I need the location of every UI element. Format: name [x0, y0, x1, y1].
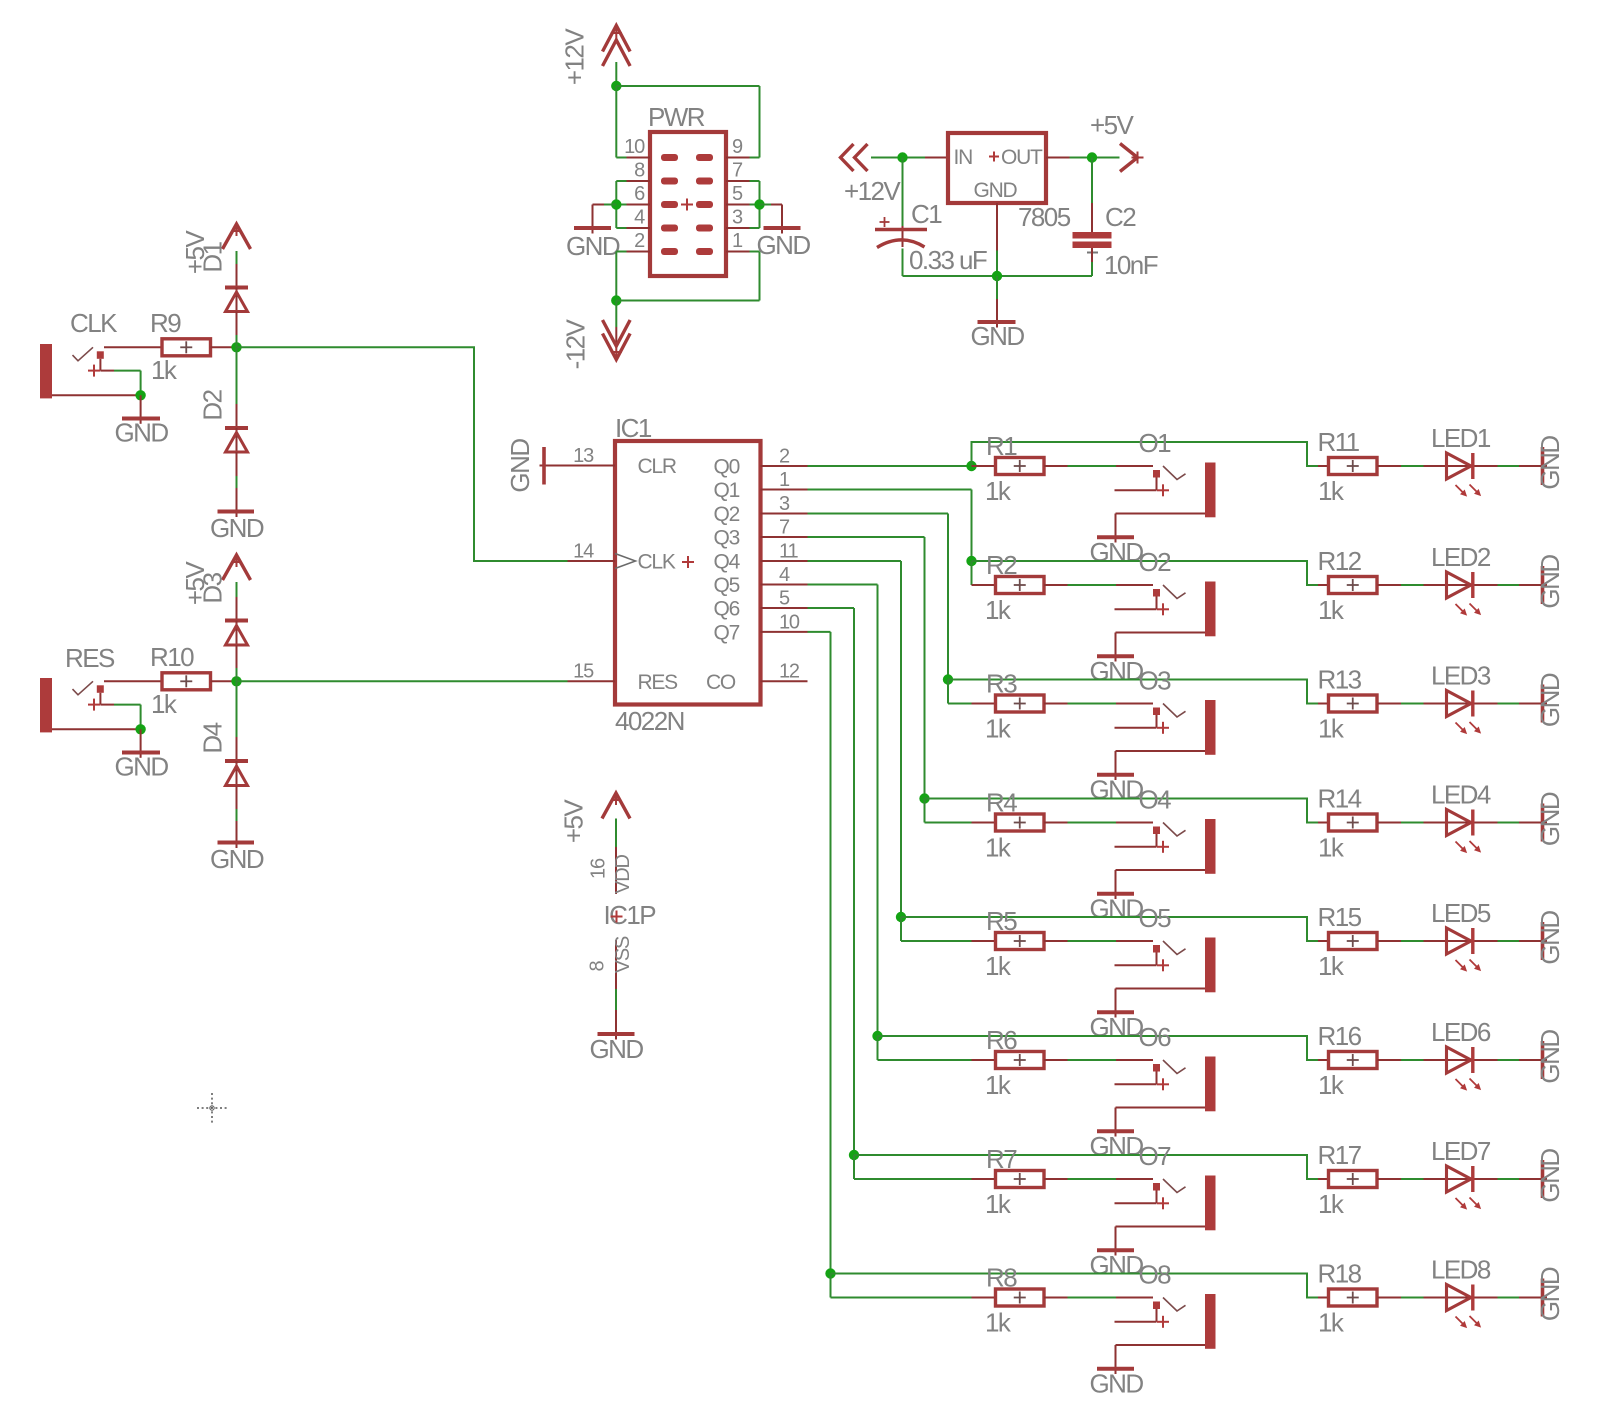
ground (IC1P) — [589, 1034, 643, 1064]
label LED8 — [1431, 1255, 1491, 1285]
svg-text:GND: GND — [1535, 436, 1565, 490]
wire CLK net to IC1 — [237, 347, 568, 561]
svg-text:LED8: LED8 — [1431, 1255, 1491, 1285]
svg-text:R17: R17 — [1318, 1140, 1362, 1170]
wire node to R6 — [972, 1059, 996, 1061]
svg-text:5: 5 — [732, 183, 743, 205]
svg-text:LED2: LED2 — [1431, 542, 1491, 572]
wire +12V down to pin 10 — [616, 86, 626, 158]
wire VSS to ground — [615, 989, 617, 1040]
svg-text:O4: O4 — [1139, 785, 1172, 815]
ground (jack O2) — [1089, 656, 1143, 686]
supply +5V arrow (D1) — [223, 224, 251, 288]
wire LED3 to ground — [1475, 703, 1548, 705]
svg-text:RES: RES — [65, 643, 115, 673]
svg-text:GND: GND — [1089, 894, 1143, 924]
value 1k (R14) — [1318, 833, 1345, 863]
resistor R15 — [1329, 933, 1378, 950]
wire rail down to pin 9 — [759, 86, 761, 158]
svg-text:VDD: VDD — [612, 854, 634, 893]
connector jack O7 — [1115, 1176, 1216, 1231]
diode D4 — [225, 681, 248, 848]
wire C2 to rail — [1091, 248, 1093, 276]
resistor R3 — [996, 695, 1045, 712]
ground (LED4) — [1535, 792, 1565, 846]
wire to right GND — [760, 205, 783, 234]
ground (LED2) — [1535, 555, 1565, 609]
wire jack O4 to ground — [1115, 870, 1117, 899]
svg-text:GND: GND — [1535, 911, 1565, 965]
svg-text:R18: R18 — [1318, 1259, 1362, 1289]
pin CO stub — [761, 680, 808, 682]
wire row 6 drop — [878, 1036, 972, 1060]
svg-text:O8: O8 — [1139, 1260, 1172, 1290]
label R17 — [1318, 1140, 1362, 1170]
svg-text:1k: 1k — [1318, 1189, 1345, 1219]
wire node to R2 — [972, 584, 996, 586]
resistor R8 — [996, 1289, 1045, 1306]
junction RES node — [231, 676, 241, 686]
wire row 8 drop — [831, 1274, 972, 1298]
junction C2 node — [1087, 152, 1097, 162]
svg-text:GND: GND — [1535, 673, 1565, 727]
svg-text:5: 5 — [779, 588, 790, 610]
wire row 6 bypass — [878, 1036, 1329, 1060]
svg-text:GND: GND — [1535, 792, 1565, 846]
label RES — [65, 643, 115, 673]
label R15 — [1318, 902, 1362, 932]
junction jack RES gnd node — [135, 724, 145, 734]
wire R1 to jack O1 — [1044, 465, 1153, 467]
wire to left GND — [593, 205, 617, 234]
wire pin1 right — [750, 251, 760, 253]
wire +12V to junction — [615, 62, 617, 86]
wire node to R4 — [972, 822, 996, 824]
connector jack O6 — [1115, 1057, 1216, 1112]
svg-text:1k: 1k — [1318, 1308, 1345, 1338]
diode D1 — [225, 288, 248, 348]
wire LED4 to ground — [1475, 822, 1548, 824]
resistor R16 — [1329, 1052, 1378, 1069]
junction C1 node — [897, 152, 907, 162]
ground (CLK jack) — [114, 417, 168, 447]
svg-text:1k: 1k — [985, 951, 1012, 981]
IC1 origin cross — [682, 556, 694, 568]
wire R6 to jack O6 — [1044, 1059, 1153, 1061]
svg-text:GND: GND — [1535, 1267, 1565, 1321]
resistor R18 — [1329, 1289, 1378, 1306]
svg-text:GND: GND — [1089, 1369, 1143, 1399]
LED LED5 — [1446, 928, 1481, 972]
value 1k (R18) — [1318, 1308, 1345, 1338]
junction gnd rail node — [992, 271, 1002, 281]
ground (jack O3) — [1089, 775, 1143, 805]
LED LED7 — [1446, 1166, 1481, 1210]
ground (below D4) — [210, 843, 264, 875]
LED LED4 — [1446, 810, 1481, 854]
svg-text:GND: GND — [1089, 537, 1143, 567]
IC U IC1 4022N box — [615, 441, 761, 705]
wire top rail — [616, 85, 759, 87]
junction row 1 node — [966, 461, 976, 471]
svg-text:15: 15 — [573, 661, 594, 683]
wire row 8 bypass — [831, 1274, 1329, 1298]
ground (LED1) — [1535, 436, 1565, 490]
wire R14 to LED4 — [1378, 822, 1447, 824]
junction -12V node — [611, 295, 621, 305]
svg-text:D2: D2 — [198, 389, 228, 420]
svg-text:1k: 1k — [985, 595, 1012, 625]
svg-text:R4: R4 — [986, 788, 1017, 818]
svg-text:LED1: LED1 — [1431, 423, 1491, 453]
svg-text:R14: R14 — [1318, 784, 1362, 814]
ground (LED6) — [1535, 1030, 1565, 1084]
wire jack O8 to ground — [1115, 1345, 1117, 1374]
svg-text:0.33 uF: 0.33 uF — [909, 245, 987, 275]
wire Q1 net to row 2 — [808, 490, 972, 562]
svg-text:LED3: LED3 — [1431, 661, 1491, 691]
wire R18 to LED8 — [1378, 1297, 1447, 1299]
svg-text:O2: O2 — [1139, 547, 1172, 577]
label R12 — [1318, 546, 1362, 576]
junction row 7 node — [849, 1150, 859, 1160]
wire Q0 net to row 1 — [808, 465, 972, 467]
label CLK — [70, 308, 118, 338]
svg-text:16: 16 — [588, 858, 610, 879]
wire RES net to IC1 — [237, 680, 568, 682]
junction pin5 node — [754, 199, 764, 209]
IC power part IC1P — [604, 900, 656, 930]
wire Q6 net to row 7 — [808, 608, 855, 1155]
svg-text:VSS: VSS — [612, 936, 634, 973]
svg-text:8: 8 — [634, 160, 645, 182]
ground (jack O4) — [1089, 894, 1143, 924]
wire Q7 net to row 8 — [808, 632, 831, 1274]
label R7 — [986, 1144, 1017, 1174]
ground (below D2) — [210, 512, 264, 544]
svg-text:+12V: +12V — [560, 28, 590, 85]
wire row 2 bypass — [972, 561, 1329, 585]
wire C1 branch — [902, 158, 904, 248]
wire row 7 bypass — [854, 1155, 1329, 1179]
svg-text:-12V: -12V — [561, 318, 591, 369]
label LED5 — [1431, 898, 1491, 928]
svg-text:IC1: IC1 — [615, 413, 652, 443]
wire row 4 bypass — [925, 799, 1329, 823]
wire R15 to LED5 — [1378, 940, 1447, 942]
wire pin9 right — [750, 157, 760, 159]
ground (right of PWR) — [756, 228, 810, 260]
value 1k (R6) — [985, 1070, 1012, 1100]
svg-text:10: 10 — [624, 136, 645, 158]
wire jack O6 to ground — [1115, 1108, 1117, 1137]
svg-text:GND: GND — [210, 844, 264, 874]
svg-text:R11: R11 — [1318, 427, 1360, 457]
supply +5V arrow (right of 7805) — [1120, 144, 1144, 172]
svg-text:O5: O5 — [1139, 903, 1172, 933]
IC1 output pin stubs — [761, 466, 808, 632]
junction row 2 node — [966, 556, 976, 566]
diode D3 — [225, 621, 248, 682]
wire +12V to 7805 IN — [871, 157, 948, 159]
svg-text:O7: O7 — [1139, 1141, 1172, 1171]
resistor R14 — [1329, 814, 1378, 831]
svg-text:LED6: LED6 — [1431, 1017, 1491, 1047]
svg-text:GND: GND — [1089, 1131, 1143, 1161]
IC1 pin names — [638, 455, 741, 694]
svg-text:R13: R13 — [1318, 665, 1362, 695]
svg-text:GND: GND — [1535, 555, 1565, 609]
supply +12V arrow (top) — [603, 26, 631, 67]
label LED4 — [1431, 780, 1491, 810]
svg-text:GND: GND — [1089, 1250, 1143, 1280]
junction row 8 node — [825, 1268, 835, 1278]
label R10 — [150, 642, 194, 672]
label LED6 — [1431, 1017, 1491, 1047]
connector jack O2 — [1115, 582, 1216, 637]
junction row 4 node — [919, 793, 929, 803]
wire R8 to jack O8 — [1044, 1297, 1153, 1299]
wire row 5 drop — [901, 917, 972, 941]
ground (jack O7) — [1089, 1250, 1143, 1280]
label R5 — [986, 906, 1017, 936]
svg-text:R6: R6 — [986, 1025, 1017, 1055]
value 1k (R1) — [985, 476, 1012, 506]
IC1 clock wedge — [615, 554, 636, 569]
svg-text:1k: 1k — [1318, 595, 1345, 625]
wire jack O2 to ground — [1115, 633, 1117, 662]
wire to GND symbol — [996, 276, 998, 328]
wire row 2 drop — [971, 561, 973, 585]
svg-text:4: 4 — [634, 207, 645, 229]
wire row 5 bypass — [901, 917, 1329, 941]
wire row 3 drop — [948, 680, 972, 704]
svg-text:10nF: 10nF — [1104, 250, 1158, 280]
value 1k (R5) — [985, 951, 1012, 981]
label O6 — [1139, 1022, 1172, 1052]
connector jack CLK — [40, 344, 162, 398]
diode D2 — [225, 347, 248, 517]
wire Q5 net to row 6 — [808, 585, 878, 1037]
ground (RES jack) — [114, 751, 168, 781]
svg-text:CLR: CLR — [638, 455, 677, 478]
svg-text:+5V: +5V — [1090, 110, 1135, 140]
svg-text:R7: R7 — [986, 1144, 1017, 1174]
connector jack O5 — [1115, 938, 1216, 993]
wire R16 to LED6 — [1378, 1059, 1447, 1061]
origin crosshair — [197, 1093, 227, 1123]
wire node to R1 — [972, 465, 996, 467]
svg-text:2: 2 — [779, 446, 790, 468]
svg-text:Q0: Q0 — [714, 456, 740, 479]
connector jack O1 — [1115, 463, 1216, 518]
label LED7 — [1431, 1136, 1491, 1166]
wire row 4 drop — [925, 799, 972, 823]
svg-text:8: 8 — [587, 960, 609, 971]
svg-text:14: 14 — [573, 541, 594, 563]
wire CLR pin — [540, 465, 616, 467]
svg-text:11: 11 — [779, 541, 798, 563]
wire LED2 to ground — [1475, 584, 1548, 586]
value 1k (R2) — [985, 595, 1012, 625]
supply -12V arrow (bottom) — [603, 301, 631, 360]
wire jack O7 to ground — [1115, 1227, 1117, 1256]
wire pin2 to -12V — [616, 252, 626, 301]
junction row 3 node — [943, 674, 953, 684]
wire row 7 drop — [854, 1155, 972, 1179]
value 4022N — [615, 706, 684, 736]
svg-text:GND: GND — [970, 321, 1024, 351]
resistor R13 — [1329, 695, 1378, 712]
wire R17 to LED7 — [1378, 1178, 1447, 1180]
value 1k (R16) — [1318, 1070, 1345, 1100]
LED LED6 — [1446, 1047, 1481, 1091]
svg-text:7805: 7805 — [1018, 202, 1071, 232]
svg-text:GND: GND — [505, 439, 535, 493]
svg-text:R16: R16 — [1318, 1021, 1362, 1051]
svg-text:1k: 1k — [1318, 833, 1345, 863]
svg-text:R1: R1 — [986, 431, 1017, 461]
resistor R7 — [996, 1171, 1045, 1188]
svg-text:R10: R10 — [150, 642, 194, 672]
value 1k (R7) — [985, 1189, 1012, 1219]
svg-text:Q3: Q3 — [714, 527, 740, 550]
supply +12V arrow (left of 7805) — [841, 144, 868, 171]
svg-text:R8: R8 — [986, 1263, 1017, 1293]
label O7 — [1139, 1141, 1172, 1171]
label LED2 — [1431, 542, 1491, 572]
value 1k (R15) — [1318, 951, 1345, 981]
net label -12V (rotated) — [561, 318, 591, 369]
label D3 (rotated) — [198, 572, 228, 603]
svg-text:1k: 1k — [985, 833, 1012, 863]
svg-text:Q2: Q2 — [714, 503, 740, 526]
svg-text:D1: D1 — [198, 241, 228, 272]
label O2 — [1139, 547, 1172, 577]
svg-text:1: 1 — [732, 230, 743, 252]
wire bottom rail — [616, 300, 759, 302]
value 1k (R9) — [151, 355, 178, 385]
svg-text:9: 9 — [732, 136, 743, 158]
svg-text:IN: IN — [954, 146, 973, 169]
wire rail up to pin 1 — [759, 252, 761, 301]
capacitor C1 (polarized) — [875, 217, 927, 248]
connector jack RES — [40, 678, 162, 732]
svg-text:LED4: LED4 — [1431, 780, 1491, 810]
svg-text:R12: R12 — [1318, 546, 1362, 576]
value 1k (R8) — [985, 1308, 1012, 1338]
supply +5V arrow (D3) — [223, 555, 251, 621]
wire node to R7 — [972, 1178, 996, 1180]
wire LED5 to ground — [1475, 940, 1548, 942]
label R9 — [150, 308, 181, 338]
junction +12V node — [611, 81, 621, 91]
wire jack O3 to ground — [1115, 751, 1117, 780]
LED LED3 — [1446, 691, 1481, 735]
svg-text:1k: 1k — [1318, 476, 1345, 506]
IC1P VDD pin 16 — [588, 847, 635, 894]
svg-text:GND: GND — [566, 231, 620, 261]
junction pin6 node — [611, 199, 621, 209]
svg-text:1k: 1k — [1318, 951, 1345, 981]
capacitor C2 — [1073, 232, 1112, 253]
svg-text:GND: GND — [756, 230, 810, 260]
svg-text:+12V: +12V — [844, 176, 901, 206]
wire R2 to jack O2 — [1044, 584, 1153, 586]
resistor R6 — [996, 1052, 1045, 1069]
svg-text:D3: D3 — [198, 572, 228, 603]
svg-text:Q4: Q4 — [714, 551, 741, 574]
label C2 — [1105, 202, 1136, 232]
value 10nF — [1104, 250, 1158, 280]
connector jack O3 — [1115, 700, 1216, 755]
wire R10 to node — [211, 680, 236, 682]
label IC1 — [615, 413, 652, 443]
label O4 — [1139, 785, 1172, 815]
svg-text:R9: R9 — [150, 308, 181, 338]
svg-text:1k: 1k — [985, 1308, 1012, 1338]
junction row 5 node — [896, 912, 906, 922]
label O5 — [1139, 903, 1172, 933]
wire LED6 to ground — [1475, 1059, 1548, 1061]
svg-text:GND: GND — [1535, 1149, 1565, 1203]
svg-text:1k: 1k — [985, 1189, 1012, 1219]
wire pins 7-5-3 right tie — [750, 181, 760, 228]
wire R13 to LED3 — [1378, 703, 1447, 705]
resistor R5 — [996, 933, 1045, 950]
svg-text:D4: D4 — [198, 722, 228, 753]
svg-text:GND: GND — [1089, 656, 1143, 686]
svg-text:13: 13 — [573, 445, 594, 467]
wire R11 to LED1 — [1378, 465, 1447, 467]
svg-text:7: 7 — [732, 160, 743, 182]
svg-text:OUT: OUT — [1001, 146, 1043, 169]
svg-text:LED7: LED7 — [1431, 1136, 1491, 1166]
wire R4 to jack O4 — [1044, 822, 1153, 824]
wire row 3 bypass — [948, 680, 1329, 704]
svg-text:C2: C2 — [1105, 202, 1136, 232]
label R2 — [986, 550, 1017, 580]
label R1 — [986, 431, 1017, 461]
svg-text:6: 6 — [634, 183, 645, 205]
svg-text:Q5: Q5 — [714, 574, 740, 597]
value label 7805 — [1018, 202, 1071, 232]
label LED1 — [1431, 423, 1491, 453]
wire R5 to jack O5 — [1044, 940, 1153, 942]
ground (CLR pin 13) — [505, 439, 544, 493]
wire C1 to rail — [902, 249, 904, 277]
resistor R10 — [162, 673, 211, 690]
regulator IC 7805 — [948, 133, 1046, 203]
wire R3 to jack O3 — [1044, 703, 1153, 705]
resistor R17 — [1329, 1171, 1378, 1188]
net label +12V (rotated) — [560, 28, 590, 85]
svg-text:C1: C1 — [911, 199, 942, 229]
svg-text:GND: GND — [1535, 1030, 1565, 1084]
svg-text:10: 10 — [779, 611, 800, 633]
label R18 — [1318, 1259, 1362, 1289]
value 1k (R17) — [1318, 1189, 1345, 1219]
svg-text:LED5: LED5 — [1431, 898, 1491, 928]
label PWR — [648, 102, 705, 132]
junction row 6 node — [872, 1031, 882, 1041]
wire LED7 to ground — [1475, 1178, 1548, 1180]
wire 7805 OUT to +5V — [1046, 157, 1120, 159]
label D1 (rotated) — [198, 241, 228, 272]
svg-text:1k: 1k — [985, 1070, 1012, 1100]
wire Q4 net to row 5 — [808, 561, 902, 917]
ground (LED5) — [1535, 911, 1565, 965]
